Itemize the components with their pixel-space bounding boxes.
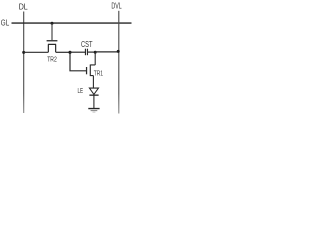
wire node A down to TR1 gate: [70, 52, 86, 70]
svg-text:CST: CST: [81, 40, 93, 49]
wire TR1 drain (down from node B): [94, 52, 96, 65]
wire CST to node B: [87, 51, 95, 53]
transistor TR2 (switching TFT): [47, 41, 58, 53]
svg-text:TR2: TR2: [47, 55, 57, 64]
svg-text:LE: LE: [78, 86, 84, 95]
junction DL / TR2 source: [22, 51, 25, 54]
diode LE (light emitting element): [89, 88, 98, 95]
capacitor CST: [85, 49, 87, 56]
svg-text:DL: DL: [19, 1, 28, 11]
wire TR2 source to DL: [24, 51, 49, 53]
junction node A (TR2 drain / CST / TR1 gate): [68, 51, 71, 54]
wire DVL (driving voltage line, vertical): [118, 11, 120, 114]
wire node A to capacitor: [70, 51, 86, 53]
svg-text:GL: GL: [1, 18, 10, 28]
wire TR2 drain to node A: [56, 51, 70, 53]
wire TR1 source to LE anode: [92, 76, 94, 89]
wire LE cathode to ground: [93, 95, 95, 108]
wire node B to DVL: [95, 51, 119, 53]
transistor TR1 (driving TFT): [87, 64, 96, 76]
wire TR2 gate: [51, 23, 53, 40]
wire DL (data line, vertical): [23, 12, 25, 114]
junction node B (TR1 drain tap): [94, 51, 97, 54]
junction node B / DVL: [117, 50, 120, 53]
wire GL (gate line, horizontal): [12, 22, 132, 24]
junction GL / TR2 gate: [51, 22, 54, 25]
svg-text:DVL: DVL: [111, 1, 121, 11]
svg-text:TR1: TR1: [94, 70, 103, 77]
ground: [88, 109, 99, 113]
